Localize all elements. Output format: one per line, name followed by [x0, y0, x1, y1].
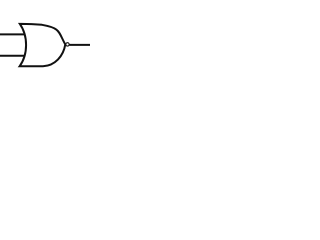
wire input A — [0, 33, 25, 35]
wire input B — [0, 55, 25, 57]
wire output — [69, 44, 90, 46]
inversion bubble — [66, 43, 69, 46]
NOR gate body — [20, 24, 66, 66]
